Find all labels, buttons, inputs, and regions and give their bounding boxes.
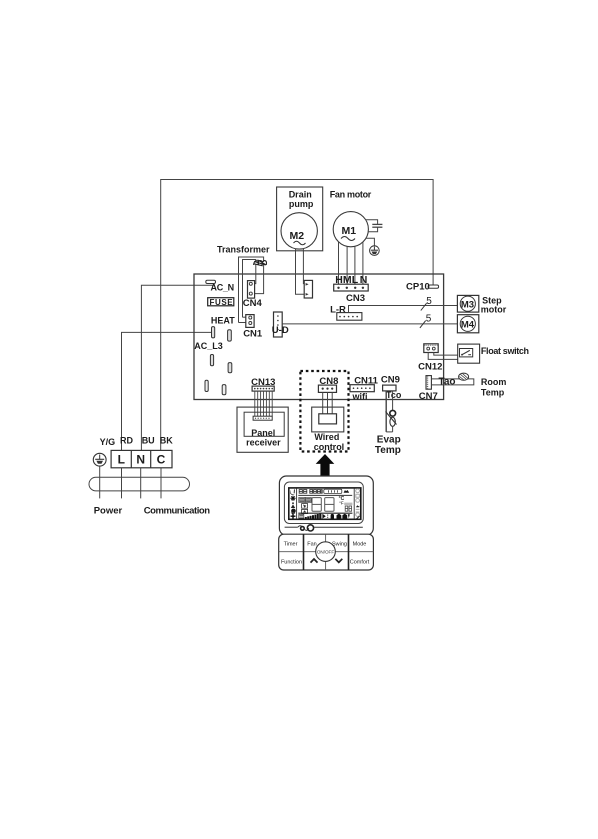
room temp sensor probe Tao <box>431 373 506 397</box>
controller cord squiggle <box>285 526 363 531</box>
AC_N lug <box>206 280 234 292</box>
svg-text:RD: RD <box>120 436 133 446</box>
earth wire below <box>99 466 101 498</box>
LCD top clock segments <box>299 490 322 494</box>
float switch <box>458 344 529 363</box>
LCD bottom divider <box>298 512 352 514</box>
FUSE box <box>208 298 234 307</box>
svg-text:5: 5 <box>426 313 432 324</box>
LCD fan-speed blob <box>344 490 350 493</box>
LCD degree C/F <box>339 496 345 506</box>
svg-text:M2: M2 <box>290 230 305 242</box>
svg-text:wifi: wifi <box>352 391 368 401</box>
connector CN8 <box>318 376 338 393</box>
LCD SET box <box>299 514 304 518</box>
cord grommet circles <box>300 526 305 531</box>
LCD mode word boxes <box>299 497 311 502</box>
fan motor wires to CN3 <box>339 242 363 288</box>
5-wire slash mark M3 <box>421 303 427 310</box>
svg-text:AC_N: AC_N <box>211 283 234 293</box>
connector CN3 <box>334 284 369 304</box>
power/communication cable stadium <box>89 477 190 491</box>
svg-text:M3: M3 <box>461 300 474 311</box>
evap temp sensor probe <box>386 391 392 432</box>
drain pump connector on board <box>304 280 312 298</box>
drain pump box <box>277 187 323 251</box>
connector CN13 <box>251 377 275 391</box>
controller LCD frame <box>289 488 361 519</box>
wired control dotted box <box>300 371 348 452</box>
fan motor capacitor loop <box>366 220 383 232</box>
component lug d <box>228 363 232 373</box>
component lug e <box>205 380 208 391</box>
svg-text:Fan: Fan <box>307 541 316 547</box>
LCD big 7-seg digit 2 <box>325 498 334 512</box>
svg-text:L: L <box>118 453 125 467</box>
svg-text:motor: motor <box>481 304 507 314</box>
svg-text:Tco: Tco <box>386 390 402 400</box>
connector CN1 <box>243 315 263 340</box>
svg-text:Function: Function <box>281 560 302 566</box>
component lug b <box>228 330 232 341</box>
svg-text:HEAT: HEAT <box>211 316 235 326</box>
LCD bottom icons <box>322 514 325 519</box>
svg-text:pump: pump <box>289 199 314 209</box>
wire below C <box>160 468 162 499</box>
svg-text:Swing: Swing <box>332 542 347 548</box>
svg-text:Fan motor: Fan motor <box>330 190 372 200</box>
main control board <box>194 274 444 400</box>
up arrow button <box>311 559 318 563</box>
wired control box <box>312 407 345 452</box>
svg-text:5: 5 <box>426 296 432 307</box>
svg-text:CN7: CN7 <box>419 391 438 402</box>
svg-text:M4: M4 <box>461 320 475 331</box>
button labels <box>281 541 370 565</box>
fan motor ground wire <box>366 238 375 246</box>
fan motor M1 <box>333 212 368 247</box>
LCD left icon strip <box>290 488 297 519</box>
ON/OFF button <box>316 542 336 562</box>
evap thermistor symbol <box>386 410 397 426</box>
LCD big 7-seg digit 1 <box>312 498 321 512</box>
component lug c <box>210 355 213 366</box>
H M L N pin labels <box>335 274 367 286</box>
svg-text:CN1: CN1 <box>243 328 263 339</box>
svg-text:N: N <box>136 453 145 467</box>
LCD timer mini digits <box>345 506 351 511</box>
wire C: terminal C up across top down to CP10 <box>161 180 433 451</box>
terminal block L N C <box>111 450 172 467</box>
svg-text:CN12: CN12 <box>418 362 442 373</box>
svg-text:M1: M1 <box>342 225 357 237</box>
svg-text:Temp: Temp <box>375 445 401 456</box>
HEAT lug <box>212 327 215 338</box>
transformer primary/secondary loop wires <box>239 257 264 323</box>
ribbon wires CN13 to panel receiver <box>255 391 272 416</box>
svg-text:CN3: CN3 <box>346 293 365 304</box>
panel receiver <box>237 407 288 452</box>
drain pump motor M2 <box>281 213 317 249</box>
connector L-R <box>330 304 362 320</box>
svg-text:Timer: Timer <box>284 541 298 547</box>
connector CN12 <box>418 344 442 373</box>
svg-text:Comfort: Comfort <box>350 560 370 566</box>
black arrow to wired control <box>316 454 335 476</box>
CP10 lug <box>406 282 439 293</box>
svg-text:CP10: CP10 <box>406 282 430 293</box>
wire below N <box>140 468 142 499</box>
step motor M3 <box>457 295 478 312</box>
transformer coil <box>254 260 267 266</box>
svg-text:BK: BK <box>160 436 173 446</box>
svg-text:CN4: CN4 <box>243 298 263 309</box>
svg-text:Tao: Tao <box>439 377 456 388</box>
svg-text:Wired: Wired <box>314 432 339 442</box>
LCD right strip <box>354 488 360 519</box>
svg-text:Float switch: Float switch <box>481 346 529 356</box>
wired controller body <box>279 476 373 535</box>
LCD auto icon box <box>302 509 308 513</box>
button grid lines <box>279 534 374 570</box>
LCD timer gray band <box>344 503 352 506</box>
5-wire slash mark M4 <box>420 321 426 328</box>
svg-text:Panel: Panel <box>251 428 275 438</box>
wire to step motor M3 <box>349 306 458 313</box>
svg-text:Y/G: Y/G <box>100 437 116 447</box>
step motor M4 <box>457 315 478 333</box>
wire N: terminal N up to AC_N lug <box>141 285 213 450</box>
svg-text:Transformer: Transformer <box>217 245 270 255</box>
svg-text:Communication: Communication <box>144 505 211 516</box>
LCD signal ramp bars <box>305 514 322 519</box>
wire to step motor M4 <box>282 323 457 325</box>
protective earth symbol <box>93 453 106 466</box>
LCD divider line <box>298 494 352 496</box>
LCD top bracket segment <box>324 489 342 493</box>
svg-text:FUSE: FUSE <box>210 298 234 307</box>
svg-text:C: C <box>157 453 166 467</box>
ground symbol <box>370 246 380 256</box>
connector CN4 <box>243 281 263 309</box>
connector U-D <box>272 312 289 337</box>
svg-text:BU: BU <box>142 436 155 446</box>
wires CN12 to float switch <box>428 353 475 360</box>
svg-text:°F: °F <box>339 501 344 506</box>
component lug f <box>222 385 226 395</box>
controller button panel <box>279 534 374 570</box>
svg-text:CN9: CN9 <box>381 375 400 386</box>
svg-text:Temp: Temp <box>481 387 505 397</box>
connector CN7 <box>419 376 438 403</box>
svg-text:control: control <box>314 442 345 452</box>
svg-text:ON/OFF: ON/OFF <box>317 549 335 554</box>
svg-text:AC_L3: AC_L3 <box>194 341 223 351</box>
wires CN8 to wired control <box>323 392 333 413</box>
svg-text:receiver: receiver <box>246 437 281 447</box>
drain pump wires to board connector <box>296 249 305 295</box>
connector CN9 <box>381 375 402 400</box>
wire below L <box>121 468 123 499</box>
wire L: terminal L up to HEAT lug <box>122 332 212 450</box>
svg-text:U-D: U-D <box>272 325 289 336</box>
svg-text:Room: Room <box>481 377 507 387</box>
LCD fan icon box <box>302 504 308 509</box>
svg-text:Mode: Mode <box>353 541 367 547</box>
connector CN11 <box>350 375 379 401</box>
down arrow button <box>335 559 342 563</box>
svg-text:Power: Power <box>94 505 123 516</box>
